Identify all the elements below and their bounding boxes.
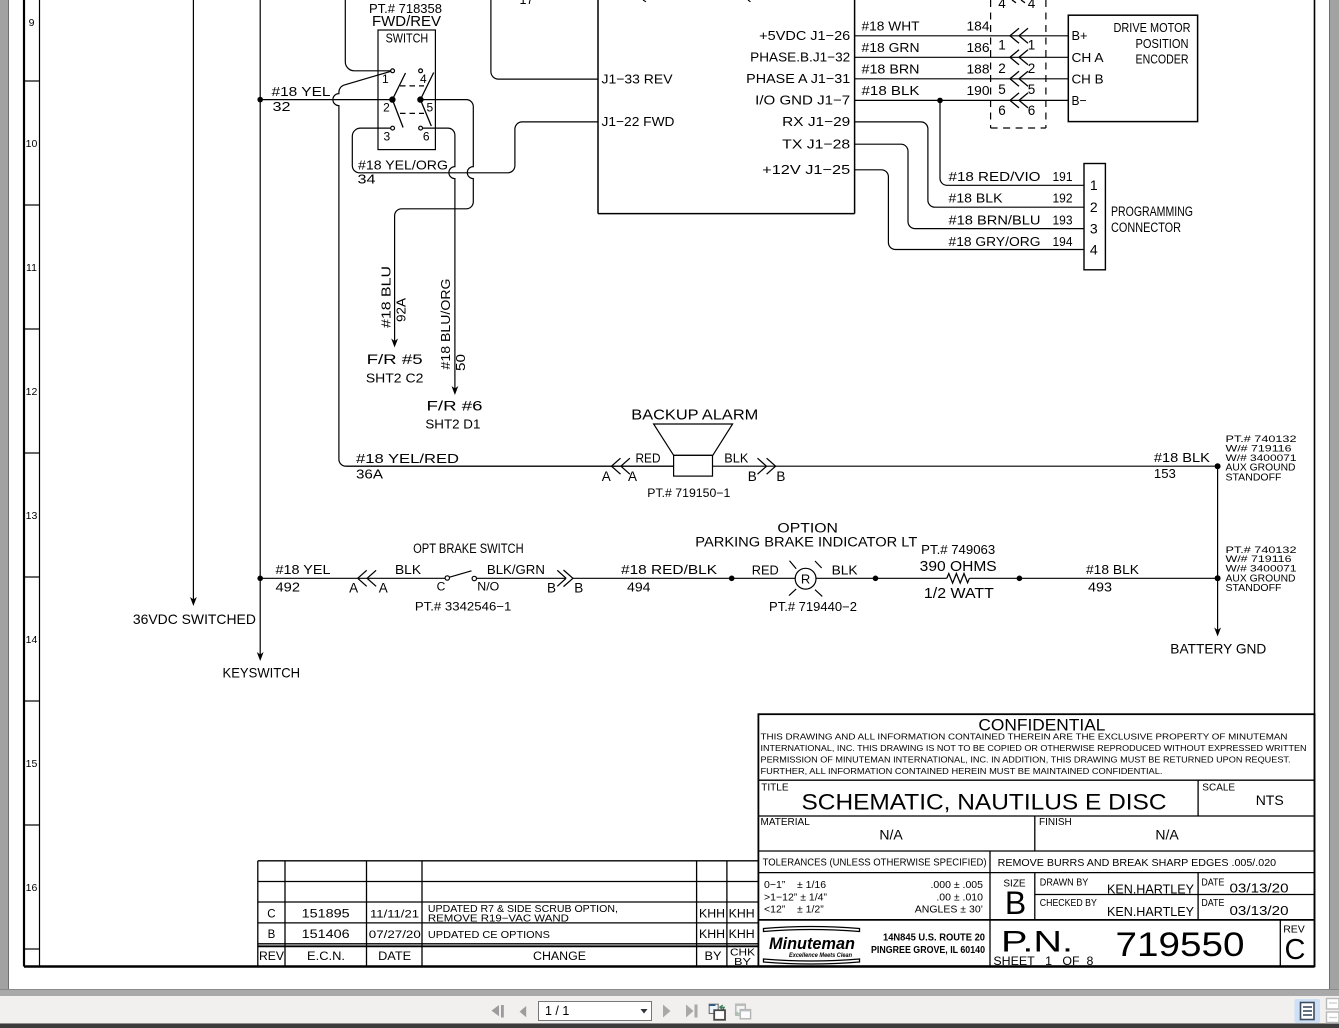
svg-text:2: 2 — [1090, 199, 1098, 215]
wire +12V J1-25 to programming pin 4 (#18 GRY/ORG) — [855, 170, 1084, 250]
svg-text:#18 YEL: #18 YEL — [272, 84, 331, 99]
label F/R #6 SHT2 D1 — [425, 398, 482, 432]
wire switch pin 6 to F/R #6 — [423, 128, 455, 392]
svg-text:1: 1 — [998, 38, 1006, 53]
wire switch pin 5 to F/R #5 — [395, 100, 474, 345]
svg-text:R: R — [801, 572, 810, 587]
lamp DS1 parking brake indicator — [789, 561, 822, 597]
tolerances header — [763, 858, 1277, 869]
svg-text:4: 4 — [1090, 241, 1098, 257]
svg-text:BY: BY — [705, 951, 722, 963]
controller cut-off text marks at top — [643, 0, 751, 2]
encoder pin labels — [1072, 28, 1104, 108]
svg-text:F/R #5: F/R #5 — [367, 351, 423, 367]
svg-text:BLK: BLK — [395, 562, 421, 577]
svg-text:MATERIAL: MATERIAL — [761, 817, 811, 828]
svg-text:494: 494 — [627, 579, 651, 594]
wire #18 YEL 492 — [262, 577, 445, 579]
svg-text:NTS: NTS — [1256, 792, 1284, 808]
svg-text:0−1” ± 1/16: 0−1” ± 1/16 — [764, 879, 826, 891]
svg-text:J1−33 REV: J1−33 REV — [602, 71, 673, 86]
Minuteman logo — [764, 927, 860, 965]
svg-text:17: 17 — [520, 0, 534, 7]
svg-text:1: 1 — [1028, 38, 1036, 53]
svg-text:BLK: BLK — [832, 563, 858, 578]
svg-text:B: B — [574, 580, 583, 595]
switch mechanical link dashes — [400, 85, 424, 87]
label PROGRAMMING CONNECTOR — [1111, 204, 1193, 235]
svg-text:11/11/21: 11/11/21 — [370, 909, 419, 921]
toolbar first page button — [492, 1005, 504, 1018]
svg-text:RED: RED — [636, 452, 661, 466]
wire into switch pin 1 from top — [345, 0, 390, 71]
svg-text:186: 186 — [967, 40, 990, 55]
toolbar continuous view button (disabled) — [1327, 999, 1339, 1023]
svg-text:2: 2 — [1028, 61, 1036, 76]
svg-text:#18 YEL/ORG: #18 YEL/ORG — [358, 157, 448, 172]
programming wire labels — [949, 169, 1073, 249]
label #18 YEL/RED 36A — [356, 451, 459, 481]
svg-text:KHH: KHH — [699, 909, 725, 921]
svg-text:.00 ± .010: .00 ± .010 — [936, 891, 983, 903]
svg-text:12: 12 — [26, 386, 38, 398]
svg-text:RED: RED — [752, 563, 779, 578]
svg-text:492: 492 — [276, 579, 301, 594]
svg-text:CHECKED BY: CHECKED BY — [1040, 898, 1097, 909]
node splice dot 2 — [873, 576, 879, 582]
svg-text:9: 9 — [29, 17, 35, 29]
svg-text:16: 16 — [26, 882, 38, 894]
svg-text:B: B — [748, 469, 757, 484]
svg-text:1: 1 — [1090, 177, 1098, 193]
svg-text:TITLE: TITLE — [761, 783, 789, 794]
svg-text:REMOVE BURRS AND BREAK SHA: REMOVE BURRS AND BREAK SHARP EDGES .005/… — [998, 858, 1277, 869]
svg-text:1 / 1: 1 / 1 — [545, 1004, 569, 1018]
svg-text:SCALE: SCALE — [1202, 783, 1235, 794]
connector chevrons on encoder wires — [1010, 0, 1028, 108]
svg-text:B: B — [547, 580, 556, 595]
wire KEYSWITCH vertical — [257, 0, 264, 661]
svg-text:SCHEMATIC, NAUTILUS E DISC: SCHEMATIC, NAUTILUS E DISC — [802, 789, 1167, 814]
svg-text:SHT2 C2: SHT2 C2 — [366, 371, 424, 385]
frame row numbers — [26, 17, 38, 894]
svg-text:1: 1 — [382, 72, 389, 86]
svg-text:390 OHMS: 390 OHMS — [920, 559, 997, 575]
title block outer box — [758, 714, 1314, 966]
svg-text:PROGRAMMING: PROGRAMMING — [1111, 204, 1193, 219]
backup alarm LS1 driver box — [674, 455, 713, 476]
toolbar single page view button (active) — [1295, 999, 1321, 1023]
svg-text:SHEET 1 OF 8: SHEET 1 OF 8 — [993, 954, 1093, 968]
svg-text:A: A — [379, 581, 388, 596]
svg-text:493: 493 — [1088, 579, 1112, 594]
encoder box — [1068, 15, 1197, 121]
svg-text:153: 153 — [1154, 466, 1176, 481]
svg-text:REMOVE R19−VAC WAND: REMOVE R19−VAC WAND — [428, 913, 569, 924]
switch pin 3 — [391, 126, 395, 130]
title block grid lines — [758, 780, 1314, 966]
wire #18 YEL 32 horizontal — [262, 99, 391, 101]
tolerance values — [764, 879, 983, 916]
drawing frame left border — [24, 0, 40, 967]
svg-text:CHANGE: CHANGE — [533, 951, 586, 963]
svg-text:Excellence Meets Clean: Excellence Meets Clean — [789, 952, 852, 959]
toolbar last page button — [686, 1005, 698, 1018]
svg-text:PARKING BRAKE INDICATOR LT: PARKING BRAKE INDICATOR LT — [695, 534, 917, 549]
svg-text:A: A — [602, 469, 611, 484]
node splice dot 1 — [729, 576, 735, 582]
svg-text:#18 BRN/BLU: #18 BRN/BLU — [949, 212, 1041, 227]
svg-text:192: 192 — [1053, 191, 1073, 206]
programming connector pin numbers — [1090, 177, 1098, 257]
svg-text:PT.# 719440−2: PT.# 719440−2 — [769, 600, 857, 614]
wire alarm to aux ground (BLK side) — [713, 465, 1218, 467]
svg-text:3: 3 — [1090, 221, 1098, 237]
svg-text:KHH: KHH — [699, 929, 725, 941]
wire #18 WHT 184 (B+) — [855, 35, 1069, 37]
connector pair A at brake switch — [358, 570, 376, 586]
switch pin 4 — [419, 69, 423, 73]
wire lamp to resistor — [816, 577, 947, 579]
switch pin 5 — [418, 97, 423, 102]
wire #18 BLK 190 (B-) — [855, 99, 1069, 101]
node junction dot on B- wire — [937, 98, 943, 104]
svg-text:188: 188 — [967, 62, 990, 77]
svg-text:F/R #6: F/R #6 — [427, 398, 483, 414]
svg-text:#18 YEL: #18 YEL — [276, 562, 331, 577]
svg-text:BACKUP ALARM: BACKUP ALARM — [631, 407, 758, 423]
svg-text:50: 50 — [454, 354, 468, 371]
svg-text:#18 BLU/ORG: #18 BLU/ORG — [439, 279, 453, 370]
svg-text:#18 GRN: #18 GRN — [862, 40, 920, 55]
label #18 RED/BLK 494 — [621, 562, 717, 595]
node aux ground standoff junction 2 — [1215, 575, 1221, 581]
svg-text:#18 BLK: #18 BLK — [1154, 450, 1210, 465]
svg-text:#18 RED/VIO: #18 RED/VIO — [949, 169, 1041, 184]
node aux ground standoff junction 1 — [1215, 463, 1221, 469]
node junction dot #18 YEL 32 — [257, 97, 263, 103]
svg-text:FURTHER, ALL INFORMATION CO: FURTHER, ALL INFORMATION CONTAINED HEREI… — [761, 766, 1163, 776]
label aux ground standoff 2 — [1226, 545, 1297, 594]
svg-text:N/A: N/A — [879, 827, 903, 843]
svg-text:A: A — [349, 581, 358, 596]
svg-text:BLK: BLK — [724, 452, 749, 466]
svg-text:BLK/GRN: BLK/GRN — [487, 562, 545, 577]
wire J1-33 REV — [491, 0, 598, 79]
svg-text:#18 BLK: #18 BLK — [949, 191, 1003, 206]
svg-text:#18 RED/BLK: #18 RED/BLK — [621, 562, 717, 577]
wire B- junction to programming pin 1 (#18 RED/VIO) — [940, 100, 1084, 185]
label #18 YEL 492 — [276, 562, 331, 595]
controller U1 box — [598, 0, 855, 214]
svg-text:03/13/20: 03/13/20 — [1230, 903, 1289, 918]
wire resistor to aux ground 2 — [969, 577, 1217, 579]
label #18 YEL — [272, 84, 331, 114]
svg-text:DATE: DATE — [1201, 877, 1224, 888]
wire 36VDC SWITCHED vertical — [190, 0, 197, 606]
wire RX J1-29 to programming pin 2 (#18 BLK) — [855, 122, 1084, 207]
wire battery ground vertical — [1214, 466, 1221, 636]
svg-text:KHH: KHH — [729, 909, 755, 921]
connector pair B at alarm — [758, 458, 776, 474]
svg-text:TOLERANCES (UNLESS OTHERWISE: TOLERANCES (UNLESS OTHERWISE SPECIFIED) — [763, 858, 987, 869]
label F/R #5 SHT2 C2 — [366, 351, 424, 385]
svg-text:OPT BRAKE SWITCH: OPT BRAKE SWITCH — [413, 541, 524, 556]
svg-text:KEN.HARTLEY: KEN.HARTLEY — [1107, 883, 1195, 897]
svg-text:KHH: KHH — [729, 929, 755, 941]
labels C and N/O — [437, 579, 500, 593]
label #18 BLU/ORG 50 (rotated) — [439, 279, 468, 372]
switch S1 FWD/REV box — [378, 30, 435, 150]
encoder title — [1114, 20, 1191, 67]
connector pair A at alarm — [612, 458, 630, 474]
svg-text:36VDC SWITCHED: 36VDC SWITCHED — [133, 611, 256, 627]
svg-text:5: 5 — [998, 82, 1006, 97]
svg-text:PT.# 719150−1: PT.# 719150−1 — [647, 486, 730, 500]
svg-text:07/27/20: 07/27/20 — [369, 929, 421, 941]
resistor R1 390 ohms — [947, 574, 970, 584]
svg-text:PT.# 3342546−1: PT.# 3342546−1 — [415, 600, 512, 614]
svg-text:DATE: DATE — [1201, 898, 1224, 909]
svg-text:5: 5 — [426, 101, 433, 115]
svg-text:2: 2 — [998, 61, 1006, 76]
svg-text:151406: 151406 — [302, 929, 350, 941]
svg-text:4: 4 — [1028, 0, 1036, 11]
toolbar previous page button — [520, 1006, 527, 1017]
svg-text:14N845 U.S. ROUTE 20: 14N845 U.S. ROUTE 20 — [883, 931, 985, 943]
switch pin 6 — [419, 126, 423, 130]
svg-text:ENCODER: ENCODER — [1136, 51, 1189, 66]
svg-text:B: B — [268, 929, 276, 941]
svg-text:J1−22 FWD: J1−22 FWD — [602, 114, 675, 129]
switch pin 1 — [391, 69, 395, 73]
svg-text:N/O: N/O — [477, 579, 499, 593]
labels PT.# 749063 / 390 OHMS / 1/2 WATT — [920, 543, 997, 602]
svg-text:#18 WHT: #18 WHT — [862, 19, 920, 34]
svg-text:CH A: CH A — [1072, 50, 1104, 65]
svg-text:N/A: N/A — [1155, 827, 1179, 843]
svg-text:#18 BLU: #18 BLU — [379, 266, 393, 328]
switch pin 2 — [390, 97, 395, 102]
svg-text:13: 13 — [26, 510, 38, 522]
svg-text:A: A — [628, 469, 637, 484]
svg-text:#18 YEL/RED: #18 YEL/RED — [356, 451, 459, 466]
svg-text:+5VDC J1−26: +5VDC J1−26 — [759, 28, 850, 43]
labels RED / BLK at alarm — [636, 452, 749, 466]
wire #18 RED/BLK 494 — [573, 577, 795, 579]
revision table box — [258, 861, 759, 967]
svg-text:4: 4 — [998, 0, 1006, 11]
svg-text:184: 184 — [967, 19, 990, 34]
svg-text:E.C.N.: E.C.N. — [307, 951, 345, 963]
svg-text:C: C — [437, 579, 446, 593]
svg-text:+12V J1−25: +12V J1−25 — [762, 162, 850, 177]
svg-text:SHT2 D1: SHT2 D1 — [425, 417, 480, 431]
svg-text:RX J1−29: RX J1−29 — [782, 114, 850, 129]
backup alarm LS1 horn — [654, 424, 733, 455]
drawn/checked block — [1040, 877, 1289, 919]
svg-text:6: 6 — [423, 130, 430, 144]
svg-text:>1−12” ± 1/4”: >1−12” ± 1/4” — [764, 891, 827, 903]
svg-text:DRAWN BY: DRAWN BY — [1040, 877, 1089, 888]
svg-text:KEN.HARTLEY: KEN.HARTLEY — [1107, 905, 1195, 919]
toolbar next page button — [663, 1005, 671, 1018]
svg-text:11: 11 — [26, 262, 37, 274]
svg-text:92A: 92A — [394, 297, 408, 322]
svg-text:ANGLES ± 30’: ANGLES ± 30’ — [915, 904, 983, 916]
svg-text:.000 ± .005: .000 ± .005 — [931, 879, 984, 891]
svg-text:PHASE.B.J1−32: PHASE.B.J1−32 — [750, 50, 850, 65]
dashed inline connector box — [991, 0, 1046, 128]
dashed connector pin numbers — [998, 0, 1036, 118]
svg-text:PT.# 749063: PT.# 749063 — [921, 543, 995, 557]
switch FWD/REV labels — [369, 2, 442, 46]
svg-text:Minuteman: Minuteman — [769, 934, 855, 953]
svg-text:194: 194 — [1053, 234, 1073, 249]
revision row C — [267, 904, 754, 924]
svg-text:C: C — [1285, 934, 1306, 966]
svg-text:5: 5 — [1028, 82, 1036, 97]
svg-text:INTERNATIONAL, INC. THIS DR: INTERNATIONAL, INC. THIS DRAWING IS NOT … — [761, 743, 1307, 753]
svg-text:34: 34 — [358, 171, 376, 186]
svg-text:BY: BY — [734, 956, 751, 968]
svg-text:B: B — [1005, 885, 1026, 921]
svg-text:BATTERY GND: BATTERY GND — [1170, 641, 1266, 657]
svg-text:14: 14 — [26, 634, 38, 646]
svg-text:STANDOFF: STANDOFF — [1226, 582, 1282, 594]
svg-text:151895: 151895 — [302, 909, 350, 921]
svg-text:REV: REV — [259, 951, 284, 963]
viewer chrome — [0, 0, 8, 991]
svg-text:6: 6 — [1028, 103, 1036, 118]
switch lever pole 2 — [420, 73, 433, 127]
svg-text:B+: B+ — [1072, 28, 1088, 43]
svg-text:SWITCH: SWITCH — [386, 32, 429, 46]
svg-text:OPTION: OPTION — [777, 520, 838, 535]
node splice dot 3 — [1017, 576, 1023, 582]
svg-text:03/13/20: 03/13/20 — [1230, 881, 1289, 896]
switch lever pole 1 — [392, 73, 405, 128]
wire switch pin 3 to J1-22 FWD (#18 YEL/ORG) with jogs — [352, 122, 598, 173]
confidential paragraph — [761, 732, 1307, 776]
svg-text:DRIVE MOTOR: DRIVE MOTOR — [1114, 20, 1191, 35]
wire #18 YEL/RED to alarm (RED side) — [346, 465, 674, 467]
svg-text:CONNECTOR: CONNECTOR — [1111, 220, 1181, 235]
svg-text:C: C — [267, 909, 275, 921]
svg-text:PINGREE GROVE, IL 60140: PINGREE GROVE, IL 60140 — [871, 944, 985, 956]
label #18 BLK 493 — [1086, 562, 1139, 595]
encoder wire labels — [862, 19, 990, 99]
label #18 BLU 92A (rotated) — [379, 266, 408, 328]
svg-text:B: B — [776, 469, 785, 484]
svg-text:DATE: DATE — [378, 951, 411, 963]
svg-text:193: 193 — [1053, 212, 1073, 227]
brake switch S2 contacts — [445, 576, 449, 580]
svg-text:THIS DRAWING AND ALL INFOR: THIS DRAWING AND ALL INFORMATION CONTAIN… — [761, 732, 1288, 742]
svg-text:I/O GND J1−7: I/O GND J1−7 — [755, 93, 850, 108]
wire #18 BRN 188 (CH B) — [855, 78, 1069, 80]
svg-text:CH B: CH B — [1072, 71, 1104, 86]
svg-text:#18 GRY/ORG: #18 GRY/ORG — [949, 234, 1041, 249]
switch pin number labels — [382, 72, 434, 144]
drawing frame right border — [1314, 0, 1316, 967]
drawing frame bottom border — [24, 965, 1315, 967]
toolbar duplicate-window icon (disabled) — [736, 1004, 751, 1019]
toolbar page number box — [539, 1002, 652, 1021]
company address — [871, 931, 985, 956]
node junction dot #18 YEL 492 — [257, 576, 263, 582]
svg-text:PHASE A J1−31: PHASE A J1−31 — [746, 71, 850, 86]
wire from switch pin 1 down to #18 YEL/RED (jog over #18 YEL) — [333, 71, 674, 466]
svg-text:10: 10 — [26, 138, 38, 150]
svg-text:191: 191 — [1053, 169, 1073, 184]
label #18 BLK 153 — [1154, 450, 1210, 481]
svg-text:36A: 36A — [356, 467, 383, 482]
svg-text:KEYSWITCH: KEYSWITCH — [223, 664, 301, 680]
svg-text:TX J1−28: TX J1−28 — [782, 136, 850, 151]
svg-text:3: 3 — [383, 130, 390, 144]
svg-text:6: 6 — [998, 103, 1006, 118]
svg-text:719550: 719550 — [1116, 926, 1245, 964]
svg-text:B−: B− — [1072, 93, 1087, 108]
svg-text:15: 15 — [26, 758, 38, 770]
svg-text:#18 BRN: #18 BRN — [862, 62, 920, 77]
svg-text:190: 190 — [967, 83, 990, 98]
label #18 YEL/ORG 34 — [358, 157, 449, 186]
svg-text:POSITION: POSITION — [1136, 36, 1189, 51]
wire BLK/GRN after switch — [477, 577, 566, 579]
svg-text:PERMISSION OF MINUTEMAN INT: PERMISSION OF MINUTEMAN INTERNATIONAL, I… — [761, 754, 1291, 764]
revision row B — [268, 929, 755, 941]
connector pair B at brake switch — [557, 570, 573, 587]
controller pin labels — [602, 71, 675, 129]
svg-text:<12” ± 1/2”: <12” ± 1/2” — [764, 904, 824, 916]
svg-text:#18 BLK: #18 BLK — [862, 83, 920, 98]
svg-text:STANDOFF: STANDOFF — [1226, 471, 1282, 483]
svg-text:FINISH: FINISH — [1039, 817, 1072, 828]
label aux ground standoff 1 — [1226, 434, 1297, 483]
revision header row — [259, 946, 755, 968]
svg-text:32: 32 — [273, 99, 291, 114]
svg-text:FWD/REV: FWD/REV — [372, 14, 441, 30]
wire TX J1-28 to programming pin 3 (#18 BRN/BLU) — [855, 144, 1084, 228]
labels OPTION / PARKING BRAKE INDICATOR LT — [695, 520, 917, 549]
programming connector J2 box — [1084, 164, 1105, 270]
toolbar new-window icon — [709, 1004, 725, 1020]
svg-text:4: 4 — [420, 72, 427, 86]
wire #18 GRN 186 (CH A) — [855, 56, 1069, 58]
svg-text:2: 2 — [383, 101, 390, 115]
svg-text:UPDATED CE OPTIONS: UPDATED CE OPTIONS — [428, 929, 550, 941]
svg-text:1/2 WATT: 1/2 WATT — [924, 586, 994, 602]
svg-text:#18 BLK: #18 BLK — [1086, 562, 1139, 577]
